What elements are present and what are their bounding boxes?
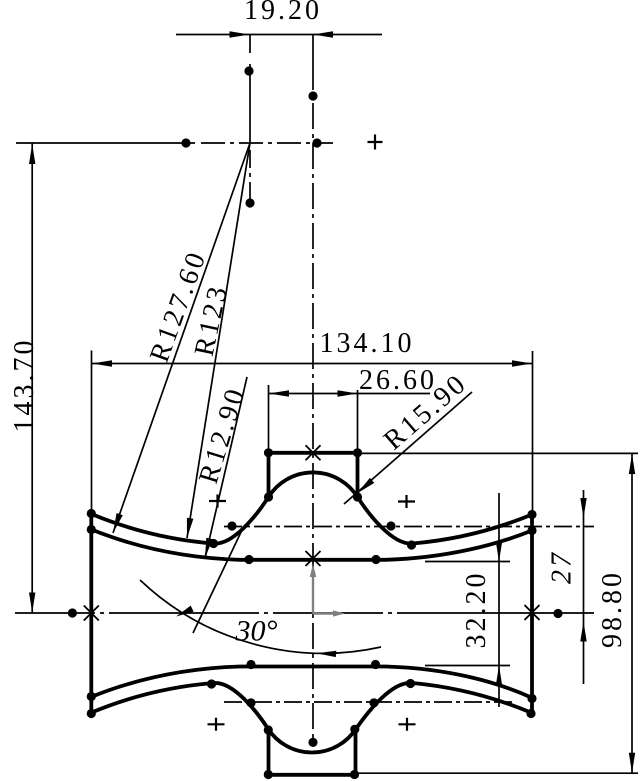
svg-text:134.10: 134.10 bbox=[320, 328, 415, 359]
svg-text:32.20: 32.20 bbox=[461, 571, 492, 649]
svg-text:30°: 30° bbox=[235, 615, 278, 648]
svg-text:19.20: 19.20 bbox=[244, 0, 322, 26]
svg-text:27: 27 bbox=[547, 550, 578, 584]
svg-text:143.70: 143.70 bbox=[9, 338, 40, 433]
svg-text:98.80: 98.80 bbox=[597, 570, 628, 648]
